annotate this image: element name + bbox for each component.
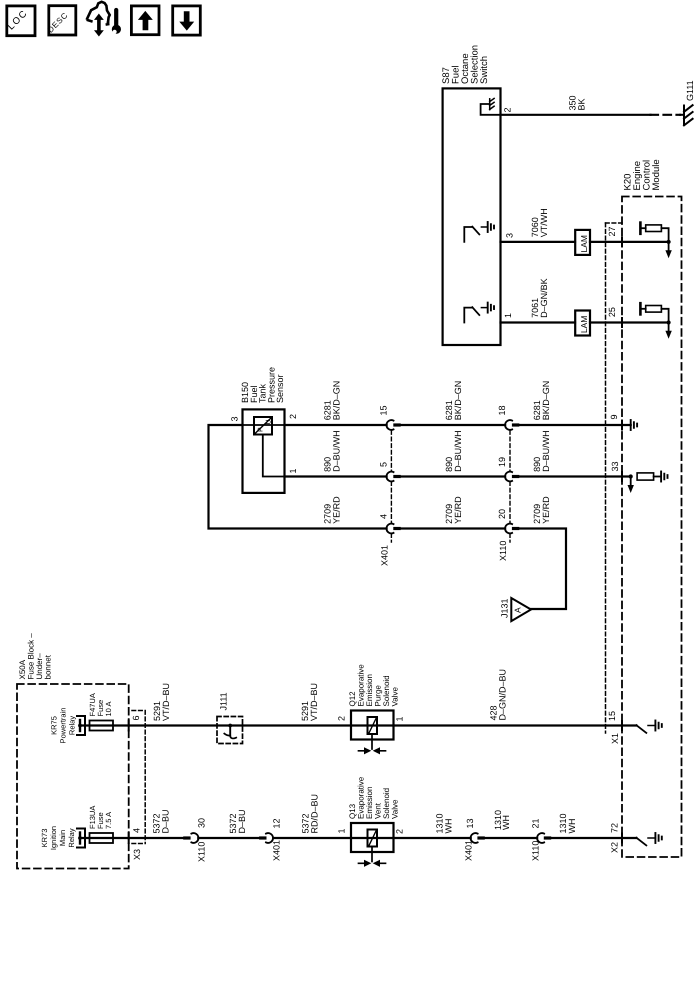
label B150 Fuel Tank Pressure Sensor [240, 367, 285, 403]
connector X401 pin 4 [386, 524, 400, 534]
label KR73 Ignition Main Relay [40, 826, 76, 850]
label wire 6281 BK/D-GN (3) [532, 381, 551, 421]
label wire 6281 BK/D-GN (1) [323, 381, 342, 421]
svg-text:G111: G111 [685, 80, 695, 101]
connector X401 pin 12 (mirrored) [259, 833, 273, 843]
svg-text:Relay: Relay [68, 716, 77, 735]
button LOC [6, 6, 35, 36]
svg-text:15: 15 [607, 711, 617, 721]
svg-text:6: 6 [131, 715, 141, 720]
label wire 890 D-BU/WH (1) [323, 430, 342, 472]
svg-text:BK/D–GN: BK/D–GN [541, 381, 551, 421]
svg-text:Relay: Relay [67, 828, 76, 847]
connector X401 pin 13 [471, 833, 485, 843]
wire B150 internal row E [243, 424, 285, 426]
svg-text:Valve: Valve [391, 687, 400, 707]
svg-text:27: 27 [607, 226, 617, 236]
label X50A Fuse Block Under-bonnet [18, 633, 53, 680]
svg-text:D–BU: D–BU [161, 809, 171, 833]
svg-text:VT/D–BU: VT/D–BU [161, 683, 171, 721]
wire 7061 D-GN/BK (S87 pin1 to LAM) [501, 321, 576, 323]
fuse block X50A Under-bonnet (dashed box) [17, 684, 129, 869]
svg-text:BK/D–GN: BK/D–GN [332, 381, 342, 421]
svg-text:LAM: LAM [579, 316, 589, 333]
svg-text:P: P [258, 427, 265, 432]
ground internal at ECM X1 [648, 721, 662, 731]
svg-text:21: 21 [531, 818, 541, 828]
valve symbol Q13 [359, 847, 386, 867]
wire KR75 to fuse F47UA [80, 724, 394, 726]
svg-text:5: 5 [379, 462, 389, 467]
svg-text:D–BU: D–BU [237, 809, 247, 833]
icon vehicle with arrows and wrench [87, 2, 121, 36]
wire 2709 YE/RD X401 to X110 [401, 527, 505, 529]
label wire 5372 D-BU (2) [228, 809, 247, 833]
label wire 428 D-GN/D-BU [489, 669, 508, 721]
pin ticks K20 edge [621, 237, 623, 842]
svg-text:YE/RD: YE/RD [453, 496, 463, 524]
button arrow down [173, 6, 201, 35]
ground internal at ECM pin 33 [661, 472, 667, 482]
svg-text:LOC: LOC [6, 8, 31, 33]
svg-text:Switch: Switch [479, 56, 490, 84]
svg-text:12: 12 [272, 818, 282, 828]
ground internal at ECM X2 [648, 833, 662, 843]
junction node pin 33 [629, 474, 633, 478]
svg-text:D–BU/WH: D–BU/WH [453, 430, 463, 472]
svg-text:33: 33 [610, 461, 620, 471]
arrow down at ECM pin 25 [668, 323, 670, 332]
svg-text:VT/D–BU: VT/D–BU [309, 683, 319, 721]
svg-text:WH: WH [444, 819, 454, 834]
svg-text:X401: X401 [380, 545, 390, 566]
pin tick X50A edge row A [128, 833, 130, 843]
svg-text:18: 18 [497, 405, 507, 415]
button arrow up [131, 6, 159, 35]
svg-text:U: U [266, 419, 273, 424]
label wire 2709 YE/RD (2) [444, 496, 463, 524]
sensor element P/U inside B150 [254, 417, 273, 435]
connector X110 pin 19 [505, 472, 519, 482]
wire 428 D-GN/D-BU Q12 to ECM X1 pin 15 [394, 724, 637, 726]
resistor pull-up at ECM pin 25 [640, 303, 668, 322]
wire 890 D-BU/WH X110 to ECM pin 33 [519, 475, 630, 477]
driver switch ECM X2 (blade to ground) [636, 838, 646, 846]
button DESC [46, 6, 76, 35]
svg-text:1: 1 [288, 468, 298, 473]
svg-text:D–BU/WH: D–BU/WH [541, 430, 551, 472]
wire 5372 D-BU X110 to X401 [198, 837, 259, 839]
stub and connector symbol J111 [229, 726, 231, 736]
ground at S87 pin 1 contact [481, 303, 494, 313]
svg-text:19: 19 [497, 457, 507, 467]
module K20 Engine Control Module (dashed box) [622, 197, 682, 858]
svg-text:Main: Main [58, 830, 67, 846]
label wire 5291 VT/D-BU (2) [300, 683, 319, 721]
connector strip X3 (dashed) [132, 711, 145, 844]
wire 6281 BK/D-GN X110 to ECM pin 9 [519, 424, 630, 426]
svg-text:13: 13 [465, 818, 475, 828]
switch contact S87 pin 3 [464, 227, 472, 242]
label wire 5372 RD/D-BU [301, 794, 320, 834]
svg-text:4: 4 [132, 828, 142, 833]
connector X110 pin 18 [505, 420, 519, 430]
ground G111 [680, 105, 693, 125]
svg-text:X401: X401 [272, 840, 282, 861]
sensor B150 Fuel Tank Pressure Sensor (box) [243, 409, 285, 493]
wire 890 D-BU/WH B150 pin1 to X401 pin 5 [285, 475, 387, 477]
svg-text:VT/WH: VT/WH [539, 208, 549, 237]
wire 1310 WH X401 to X110 pin 21 [485, 837, 537, 839]
svg-text:2: 2 [395, 829, 405, 834]
fuse F47UA 10 A [90, 721, 114, 731]
wire 1310 WH X110 to ECM X2 pin 72 [551, 837, 636, 839]
svg-text:2: 2 [288, 414, 298, 419]
splice pack J131 (triangle) [511, 598, 531, 621]
switch contact S87 pin 1 [464, 308, 472, 323]
svg-text:BK/D–GN: BK/D–GN [453, 381, 463, 421]
connector line X110 (dashed) [509, 431, 511, 542]
svg-text:J111: J111 [219, 692, 229, 710]
component LAM (row 25) [575, 311, 590, 336]
svg-text:X3: X3 [132, 849, 142, 860]
svg-text:bonnet: bonnet [44, 654, 53, 679]
label F13UA Fuse 7.5 A [88, 806, 113, 829]
arrow down at ECM pin 27 [668, 242, 670, 251]
svg-text:1: 1 [503, 313, 513, 318]
svg-text:J131: J131 [500, 598, 510, 618]
wire 2709 YE/RD from B150 pin 3 (left loop) [209, 425, 387, 529]
connector line X401 (dashed) [390, 431, 392, 542]
connector X110 pin 30 (mirrored) [183, 833, 198, 843]
solenoid coil symbol Q13 [368, 830, 378, 847]
svg-text:D–BU/WH: D–BU/WH [332, 430, 342, 472]
wire 5372 RD/D-BU X401 to Q13 pin 1 [274, 837, 393, 839]
label KR75 Powertrain Relay [50, 708, 77, 744]
component LAM (row 27) [575, 230, 590, 255]
svg-text:7.5 A: 7.5 A [104, 812, 113, 829]
svg-text:15: 15 [379, 405, 389, 415]
pin tick X50A edge row B [128, 721, 130, 731]
wire 1310 WH Q13 to X401 pin 13 [394, 837, 471, 839]
svg-text:YE/RD: YE/RD [332, 496, 342, 524]
label wire 1310 WH (3) [558, 813, 577, 833]
svg-text:Module: Module [651, 159, 662, 190]
connector strip ECM X1 (dashed) [606, 222, 623, 224]
junction node J111 [228, 724, 232, 728]
svg-text:1: 1 [395, 716, 405, 721]
relay KR75 Powertrain Relay (contact) [77, 716, 85, 735]
svg-text:X1: X1 [610, 733, 620, 744]
label F47UA Fuse 10 A [88, 693, 113, 716]
resistor pull-up at ECM pin 27 [640, 223, 668, 242]
junction node pin 27 [667, 240, 671, 244]
svg-text:D–GN/BK: D–GN/BK [539, 278, 549, 318]
wire KR73 to fuse F13UA [80, 837, 183, 839]
svg-text:RD/D–BU: RD/D–BU [310, 794, 320, 834]
connector X401 pin 5 [386, 472, 400, 482]
label wire 350 BK [568, 95, 587, 110]
svg-text:9: 9 [609, 414, 619, 419]
label wire 890 D-BU/WH (2) [444, 430, 463, 472]
svg-text:Valve: Valve [391, 799, 400, 819]
wire 7060 VT/WH (S87 pin3 to LAM) [501, 241, 576, 243]
svg-text:BK: BK [577, 98, 587, 110]
solenoid Q12 Evaporative Emission Purge Solenoid Valve (box) [351, 711, 394, 740]
label wire 890 D-BU/WH (3) [532, 430, 551, 472]
label wire 7060 VT/WH [530, 208, 549, 237]
svg-text:4: 4 [379, 514, 389, 519]
label S87 Fuel Octane Selection Switch [441, 45, 490, 84]
svg-text:25: 25 [607, 307, 617, 317]
svg-text:Ignition: Ignition [49, 826, 58, 850]
wire LAM to ECM pin 25 [590, 321, 669, 323]
svg-text:X110: X110 [196, 842, 206, 862]
label wire 5291 VT/D-BU (1) [152, 683, 171, 721]
label wire 2709 YE/RD (3) [532, 496, 551, 524]
svg-text:X2: X2 [610, 842, 620, 853]
wire S87 pin 2 internal to case ground [481, 104, 501, 115]
solenoid coil symbol Q12 [368, 717, 378, 734]
ground at S87 pin 3 contact [481, 222, 494, 232]
svg-text:2: 2 [503, 107, 513, 112]
connector X401 pin 15 [386, 420, 400, 430]
label wire 7061 D-GN/BK [530, 278, 549, 318]
junction node pin 25 [667, 320, 671, 324]
valve symbol Q12 [359, 734, 386, 754]
svg-text:X110: X110 [531, 841, 541, 861]
svg-text:KR73: KR73 [40, 829, 49, 848]
connector X110 pin 21 [537, 833, 551, 843]
label Q13 Evaporative Emission Vent Solenoid Valve [348, 776, 400, 819]
svg-text:KR75: KR75 [50, 716, 59, 735]
wire 6281 BK/D-GN X401 to X110 [401, 424, 505, 426]
svg-text:3: 3 [230, 416, 240, 421]
label wire 6281 BK/D-GN (2) [444, 381, 463, 421]
relay KR73 Ignition Main Relay (contact) [77, 829, 85, 848]
arrow down at ECM pin 33 [630, 477, 632, 486]
label Q12 Evaporative Emission Purge Solenoid Valve [348, 664, 400, 707]
solenoid Q13 Evaporative Emission Vent Solenoid Valve (box) [351, 823, 394, 852]
ground internal at ECM pin 9 [631, 420, 637, 430]
resistor to ground at ECM pin 33 [637, 473, 654, 480]
svg-text:10 A: 10 A [104, 701, 113, 716]
ground chassis inside S87 [490, 98, 494, 109]
svg-text:WH: WH [567, 819, 577, 834]
svg-text:20: 20 [497, 509, 507, 519]
svg-text:D–GN/D–BU: D–GN/D–BU [498, 669, 508, 721]
label wire 1310 WH (2) [493, 810, 511, 830]
svg-text:X110: X110 [498, 541, 508, 561]
wire LAM to ECM pin 27 [590, 241, 669, 243]
svg-text:1: 1 [337, 828, 347, 833]
svg-text:2: 2 [337, 716, 347, 721]
svg-text:WH: WH [501, 815, 511, 830]
wire 2709 YE/RD X110 pin 20 to J131 [519, 529, 566, 610]
svg-text:Powertrain: Powertrain [59, 708, 68, 744]
svg-text:A: A [513, 607, 523, 613]
svg-text:X401: X401 [464, 840, 474, 861]
wire dashed to G111 [651, 114, 681, 116]
svg-text:3: 3 [505, 233, 515, 238]
connector J111 (dashed box) [217, 717, 243, 744]
svg-text:Sensor: Sensor [275, 374, 285, 403]
wire B150 internal pin1 path [263, 435, 285, 477]
fuse F13UA 7.5 A [90, 833, 114, 843]
switch S87 Fuel Octane Selection Switch (box) [443, 88, 501, 345]
driver switch ECM X1 (blade to ground) [636, 725, 646, 733]
label wire 1310 WH (1) [435, 813, 454, 833]
svg-text:LAM: LAM [579, 235, 589, 252]
svg-text:72: 72 [610, 823, 620, 833]
connector X110 pin 20 [505, 524, 519, 534]
label K20 Engine Control Module [623, 159, 663, 190]
label wire 5372 D-BU (1) [152, 809, 171, 833]
label wire 2709 YE/RD (1) [323, 496, 342, 524]
svg-text:YE/RD: YE/RD [541, 496, 551, 524]
wire 890 D-BU/WH X401 to X110 [401, 475, 505, 477]
wire 6281 BK/D-GN B150 pin2 to X401 pin 15 [285, 424, 387, 426]
wire 350 BK row (S87 pin2 to G111) [501, 114, 651, 116]
svg-text:30: 30 [196, 818, 206, 828]
